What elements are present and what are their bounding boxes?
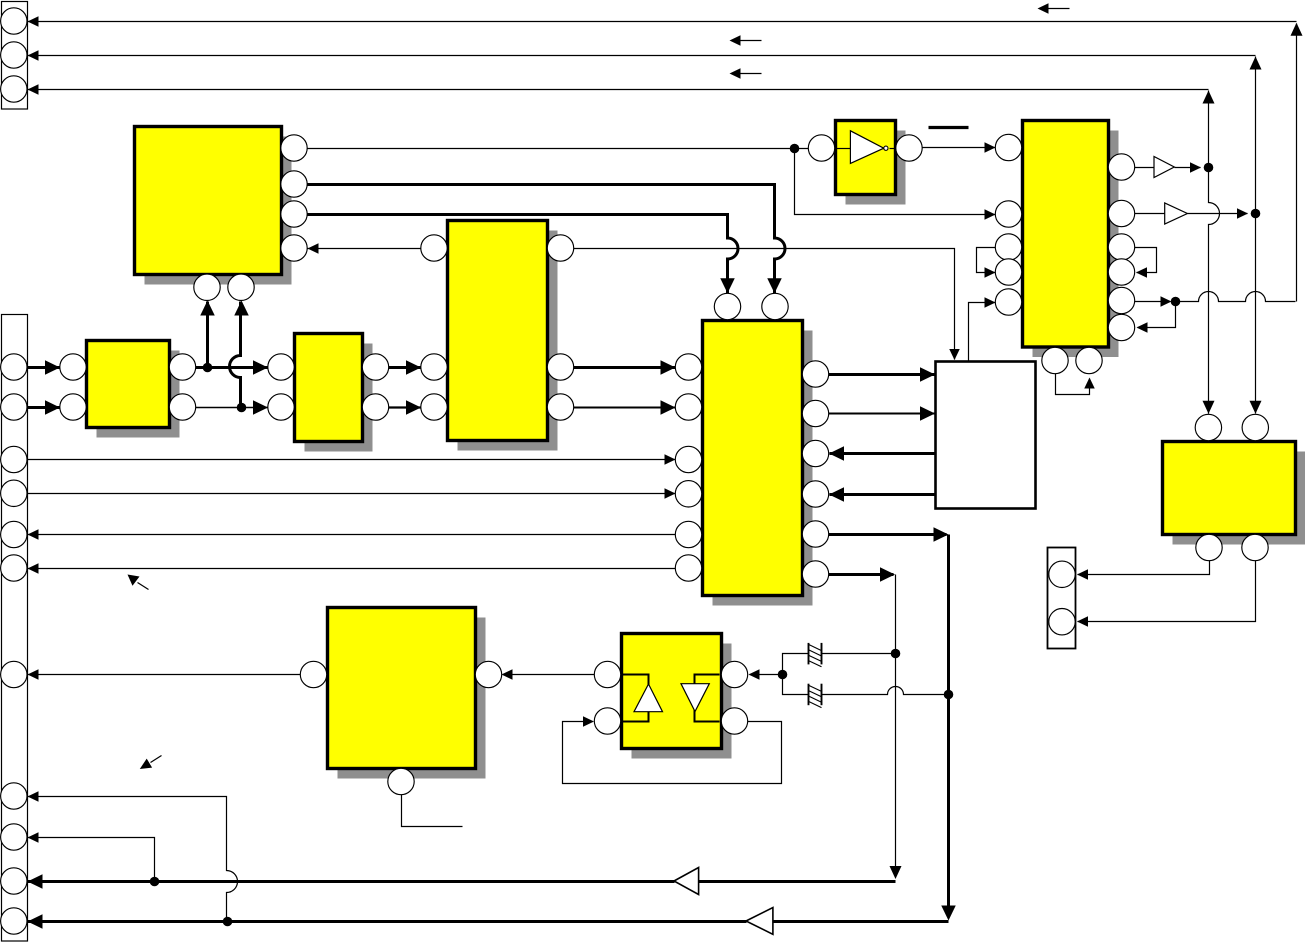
- pin U7 r1: [1108, 154, 1134, 180]
- wire U7 bottom pins link: [1056, 374, 1090, 395]
- transceiver block U11: [632, 644, 732, 759]
- pin J2.8: [1, 783, 27, 809]
- IC block U2: [97, 351, 180, 438]
- pin U7 l3: [995, 234, 1021, 260]
- termination hatch Z2: [808, 684, 810, 706]
- hollow buffer X3 on bus BB1: [674, 868, 699, 895]
- pin U5 l2: [675, 394, 701, 420]
- pin U7 l1: [995, 134, 1021, 160]
- arrowhead into U5 in r4: [829, 487, 844, 502]
- pin U7 l2: [995, 201, 1021, 227]
- wire node N17 to U11 in r1: [750, 674, 783, 676]
- arrowhead into U5 in4: [665, 488, 676, 499]
- pin U1 r2: [281, 171, 307, 197]
- wire U3 out2 to U4 in2: [389, 406, 422, 408]
- pin J2.3: [1, 446, 27, 472]
- pin U8 t1: [1195, 414, 1221, 440]
- arrowhead into J2 pin8: [28, 791, 39, 802]
- IC block U10: [338, 618, 486, 779]
- wire U5 out l6 to J2 pin6: [28, 568, 676, 570]
- overbar annotation above U6 output: [929, 126, 969, 129]
- wire node N17 down to hatch Z2: [783, 675, 809, 695]
- direction indicator arrowhead (net TOP2): [730, 35, 741, 46]
- arrowhead into U5 in3: [665, 454, 676, 465]
- wire U2 out2 to U3 in2: [196, 407, 269, 409]
- wire U5 out r1 to U9 in1: [829, 373, 936, 376]
- pin U7 r2: [1108, 200, 1134, 226]
- pin U10 right: [475, 661, 501, 687]
- wire U9 top to U7 in5 (elbow): [969, 303, 996, 362]
- wire J2 pin2 to U2 pin in2: [28, 406, 61, 409]
- pin U11 l2: [594, 708, 620, 734]
- pin J2.1: [1, 354, 27, 380]
- annotation arrow shaft B: [151, 756, 162, 763]
- arrowhead into U2 in2: [45, 400, 60, 415]
- pin U2 out1: [169, 354, 195, 380]
- annotation arrow shaft A: [138, 583, 149, 590]
- junction node N20: [150, 877, 160, 887]
- pin J2.6: [1, 555, 27, 581]
- arrowhead into U7 in r6: [1137, 322, 1148, 333]
- wire U5 out l5 to J2 pin5: [28, 534, 676, 536]
- wire U2 out1 to U3 in1: [196, 366, 269, 369]
- wire hatch Z2 to node N19 (jumps x895): [822, 687, 949, 695]
- wire net TOP2 horizontal: [28, 55, 1256, 57]
- junction node N15: [1251, 209, 1261, 219]
- wire buffer X2 output: [1188, 213, 1248, 215]
- arrowhead at node N16: [1161, 296, 1172, 307]
- wire U3 out1 to U4 in1: [389, 366, 422, 369]
- arrowhead into U9 top: [949, 349, 960, 360]
- wire net TOP3 vertical riser (jumps y213.5): [1209, 91, 1220, 414]
- pin J1.2: [1, 42, 27, 68]
- pin U1 b1: [194, 274, 220, 300]
- pin U8 b1: [1196, 534, 1222, 560]
- pin J1.1: [1, 8, 27, 34]
- pin J3.1: [1049, 561, 1075, 587]
- wire U7 out r1 to buffer X1: [1135, 167, 1155, 169]
- pin U5 r3: [802, 440, 828, 466]
- wire U4 out2 to U5 in2: [574, 407, 676, 409]
- pin U11 l1: [594, 661, 620, 687]
- pin U7 l4: [995, 259, 1021, 285]
- wire U11 in1 to U10 right pin: [503, 674, 595, 676]
- wire bottom bus BB2 left segment: [28, 920, 747, 923]
- pin U4 tr: [547, 235, 573, 261]
- arrowhead into U8 top pin 1: [1203, 401, 1215, 414]
- arrowhead up at net TOP3 junction: [1203, 91, 1215, 104]
- pin U5 r6: [802, 561, 828, 587]
- pin J2.4: [1, 480, 27, 506]
- buffer X1: [1154, 157, 1174, 178]
- direction indicator arrow shaft (net TOP1): [1047, 8, 1070, 10]
- wire U11 bottom loop: [563, 722, 782, 784]
- inverter U6 input stub: [836, 148, 851, 150]
- arrowhead into connector J1 pin 3: [28, 84, 39, 95]
- wire branch to U1 bottom pin a: [206, 302, 209, 366]
- pin J2.5: [1, 521, 27, 547]
- pin U7 r5: [1108, 287, 1134, 313]
- pin J3.2: [1049, 609, 1075, 635]
- wire bottom bus BB2 right segment: [773, 920, 949, 923]
- wire vertical drop x895: [895, 575, 897, 654]
- wire J2 pin3 to U5 in3: [28, 459, 676, 461]
- pin U1 r3: [281, 201, 307, 227]
- white box U9: [936, 362, 1036, 509]
- arrowhead into U1 bottom pin a: [200, 301, 215, 316]
- wire hatch Z1 to node N18: [822, 653, 896, 655]
- pin U3 in1: [268, 354, 294, 380]
- arrowhead into bottom bus BB1: [890, 866, 902, 879]
- pin U5 r4: [802, 481, 828, 507]
- wire U8 bottom b to J3 pin2: [1078, 561, 1256, 622]
- pin U6 out: [896, 135, 922, 161]
- direction indicator arrow shaft (net TOP2): [739, 40, 762, 42]
- pin J2.2: [1, 394, 27, 420]
- junction node N21: [223, 917, 233, 927]
- junction node N19: [944, 690, 954, 700]
- wire U8 bottom a to J3 pin1: [1078, 561, 1210, 575]
- junction node N2: [237, 403, 247, 413]
- arrowhead into J2 pin5: [28, 529, 39, 540]
- pin U4 in2: [421, 394, 447, 420]
- wire U5 out r6 horizontal: [829, 573, 894, 576]
- pin U3 out1: [362, 354, 388, 380]
- wire U4 top-left pin to U1 pin r4: [308, 248, 422, 250]
- termination hatch Z1: [808, 643, 810, 665]
- wire U7 out r5 to node N16: [1135, 301, 1171, 303]
- pin U4 out1: [547, 354, 573, 380]
- arrowhead into J2 pin7: [28, 669, 39, 680]
- arrowhead into U10 right pin: [502, 669, 513, 680]
- wire net TOP2 vertical riser: [1255, 57, 1257, 414]
- pin J2.7: [1, 661, 27, 687]
- junction node N6: [790, 144, 800, 154]
- arrowhead into U4 in1: [406, 360, 421, 375]
- pin U5 r1: [802, 361, 828, 387]
- pin U7 b2: [1076, 347, 1102, 373]
- pin U5 top b: [762, 293, 788, 319]
- pin U6 in: [808, 135, 834, 161]
- wire node N17 up to hatch Z1: [783, 654, 809, 675]
- pin U5 r2: [802, 400, 828, 426]
- inverter U6 output stub: [890, 148, 896, 150]
- wire net TOP1 horizontal: [28, 21, 1297, 23]
- arrowhead into U9 in2: [920, 406, 935, 421]
- arrowhead into U3 in1: [253, 360, 268, 375]
- IC block U1: [145, 137, 292, 285]
- arrowhead into U7 in5: [985, 297, 996, 308]
- arrowhead into J3 pin1: [1077, 569, 1088, 580]
- pin U5 l6: [675, 555, 701, 581]
- pin U4 in1: [421, 354, 447, 380]
- inverter U6 triangle: [850, 131, 883, 164]
- pin U5 l4: [675, 481, 701, 507]
- pin U8 b2: [1242, 534, 1268, 560]
- arrowhead into U1 pin r4: [308, 243, 319, 254]
- arrowhead into U7 in r4: [1136, 267, 1147, 278]
- pin U11 r2: [721, 708, 747, 734]
- arrowhead into J3 pin2: [1077, 616, 1088, 627]
- pin J1.3: [1, 76, 27, 102]
- wire net TOP1 vertical riser: [1296, 24, 1298, 302]
- wire U7 left loop: [977, 248, 996, 273]
- arrowhead into U7 in1: [985, 142, 996, 153]
- arrowhead into connector J1 pin 1: [28, 16, 39, 27]
- wire node N6 to U7 pin in2 (elbow): [795, 149, 996, 215]
- pin U7 r6: [1108, 314, 1134, 340]
- arrowhead at node N15: [1237, 208, 1248, 219]
- pin U1 r1: [281, 135, 307, 161]
- wire U4 out1 to U5 in1: [574, 366, 676, 369]
- arrowhead into J2 pin6: [28, 563, 39, 574]
- wire J2 pin4 to U5 in4: [28, 493, 676, 495]
- pin U4 tl: [421, 235, 447, 261]
- wire node N16 down to U7 in r6: [1138, 302, 1176, 328]
- arrowhead into U7 bottom pin b: [1084, 378, 1095, 389]
- arrowhead into U7 in2: [985, 209, 996, 220]
- inverter block U6: [846, 131, 906, 205]
- IC block U8: [1173, 452, 1305, 545]
- arrowhead into U11 in2: [583, 716, 594, 727]
- pin U2 in2: [60, 394, 86, 420]
- arrowhead into U5 top pin b: [767, 278, 782, 293]
- arrowhead into U7 in4: [985, 267, 996, 278]
- pin J2.9: [1, 824, 27, 850]
- pin U5 l3: [675, 446, 701, 472]
- annotation arrowhead B: [140, 759, 152, 769]
- junction node N17: [778, 670, 788, 680]
- connector strip J3: [1048, 548, 1076, 649]
- annotation arrowhead A: [128, 575, 140, 586]
- arrowhead into bottom bus BB2: [941, 906, 956, 921]
- pin U4 out2: [547, 394, 573, 420]
- IC block U5: [713, 331, 813, 606]
- arrowhead into J2 pin9: [28, 832, 39, 843]
- arrowhead into U9 in1: [920, 367, 935, 382]
- wire bottom bus BB1 right segment: [699, 880, 896, 883]
- arrowhead into connector J1 pin 2: [28, 50, 39, 61]
- hollow buffer X4 on bus BB2: [746, 908, 773, 935]
- arrowhead into U5 top pin a: [720, 278, 735, 293]
- wire U6 output to U7 in1: [923, 147, 996, 149]
- pin U10 left: [300, 661, 326, 687]
- buffer X2: [1165, 203, 1188, 224]
- U11 down-arrow triangle: [681, 684, 709, 712]
- inverter U6 bubble: [884, 146, 888, 150]
- U11 right bracket: [695, 675, 720, 722]
- wire U5 out r5 horizontal: [829, 533, 947, 536]
- wire U9 out2 to U5 in r4: [830, 493, 936, 496]
- arrowhead into U5 in r3: [829, 446, 844, 461]
- pin U7 b1: [1042, 347, 1068, 373]
- wire branch to U1 bottom pin b (jumps lane1): [230, 302, 241, 406]
- pin U5 l1: [675, 354, 701, 380]
- wire U4 top-right pin to white box U9 top: [574, 249, 955, 360]
- pin U3 in2: [268, 394, 294, 420]
- arrowhead into U5 in1: [661, 360, 676, 375]
- wire U7 out r2 to buffer X2: [1135, 213, 1165, 215]
- IC block U3: [305, 344, 373, 452]
- connector strip J1: [2, 2, 28, 110]
- direction indicator arrowhead (net TOP1): [1038, 3, 1049, 14]
- wire U1 pin r1 to inverter U6 input: [308, 148, 809, 150]
- IC block U4: [458, 231, 558, 451]
- wire U5 out r2 to U9 in2: [829, 413, 936, 415]
- wire J2 pin1 to U2 pin in1: [28, 366, 61, 369]
- pin U2 out2: [169, 394, 195, 420]
- pin U5 top a: [714, 293, 740, 319]
- wire bottom bus BB1 left segment: [28, 880, 675, 883]
- IC block U7: [1033, 131, 1119, 358]
- wire vertical drop x895 lower: [895, 654, 897, 876]
- arrowhead into U4 in2: [406, 400, 421, 415]
- arrowhead into J2 pin11: [28, 914, 43, 929]
- U11 left bracket: [623, 675, 649, 722]
- junction node N1: [203, 363, 213, 373]
- arrowhead into U2 in1: [45, 360, 60, 375]
- wire U1 pin r2 to U5 top pin b (jumps y248): [307, 185, 785, 294]
- wire U7 right loop: [1135, 248, 1157, 273]
- pin U7 r3: [1108, 234, 1134, 260]
- wire tap BB2 to J2 pin8 (jumps BB1): [28, 797, 238, 921]
- pin J2.11: [1, 908, 27, 934]
- pin U1 r4: [281, 235, 307, 261]
- pin U5 l5: [675, 521, 701, 547]
- pin U5 r5: [802, 521, 828, 547]
- pin U10 bottom: [388, 768, 414, 794]
- pin U1 b2: [228, 274, 254, 300]
- direction indicator arrowhead (net TOP3): [730, 68, 741, 79]
- direction indicator arrow shaft (net TOP3): [739, 73, 762, 75]
- connector strip J2: [2, 315, 28, 942]
- arrowhead up at net TOP2 junction: [1250, 57, 1262, 70]
- wire vertical drop x948: [947, 535, 950, 918]
- pin U2 in1: [60, 354, 86, 380]
- arrowhead at node N14: [1190, 162, 1201, 173]
- arrowhead into U8 top pin 2: [1250, 401, 1262, 414]
- pin U8 t2: [1242, 414, 1268, 440]
- wire buffer X1 output: [1175, 167, 1201, 169]
- arrowhead into U1 bottom pin b: [234, 301, 249, 316]
- wire U9 out1 to U5 in r3: [830, 452, 936, 455]
- arrowhead into J2 pin10: [28, 874, 43, 889]
- arrowhead at corner node N13: [880, 567, 895, 582]
- arrowhead into U5 in2: [661, 400, 676, 415]
- U11 up-arrow triangle: [634, 684, 663, 712]
- pin U7 l5: [995, 289, 1021, 315]
- arrowhead up at net TOP1 junction: [1291, 23, 1303, 36]
- wire U10 bottom stub: [402, 795, 463, 827]
- junction node N16: [1171, 297, 1181, 307]
- wire net TOP3 horizontal: [28, 89, 1209, 91]
- arrowhead into U11 in r1: [749, 669, 760, 680]
- wire U10 left pin to J2 pin7: [28, 674, 301, 676]
- wire U1 pin r3 to U5 top pin a (jumps y248): [307, 215, 738, 294]
- arrowhead at corner node N12: [934, 527, 949, 542]
- junction node N14: [1204, 163, 1214, 173]
- wire tap BB1 to J2 pin9: [28, 838, 155, 882]
- pin U3 out2: [362, 394, 388, 420]
- pin U7 r4: [1108, 259, 1134, 285]
- wire node N16 to riser x1296 (jumps x1208,x1255): [1175, 292, 1296, 302]
- junction node N18: [891, 649, 901, 659]
- pin U11 r1: [721, 661, 747, 687]
- pin J2.10: [1, 868, 27, 894]
- arrowhead into U3 in2: [253, 400, 268, 415]
